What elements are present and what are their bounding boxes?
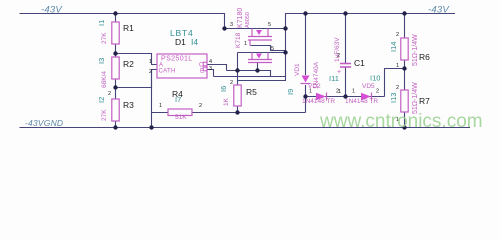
wire Q2 gate tail xyxy=(257,63,259,71)
wire R5 bottom xyxy=(237,106,239,113)
wire left vertical to ground rail xyxy=(151,70,153,128)
svg-text:51Ω-1/4W: 51Ω-1/4W xyxy=(412,82,419,114)
svg-text:I11: I11 xyxy=(329,74,339,83)
resistor R3 xyxy=(97,91,134,121)
svg-text:1N4148 TR: 1N4148 TR xyxy=(302,98,335,105)
svg-text:-43VGND: -43VGND xyxy=(25,118,63,128)
svg-text:I7: I7 xyxy=(175,95,181,104)
wire R4 R5 row xyxy=(152,112,306,114)
svg-text:3: 3 xyxy=(209,66,212,72)
svg-text:51K: 51K xyxy=(175,114,187,121)
svg-text:VD1: VD1 xyxy=(294,63,301,76)
svg-text:I4: I4 xyxy=(191,37,198,47)
svg-text:2: 2 xyxy=(396,85,399,91)
svg-text:R1: R1 xyxy=(123,23,134,33)
svg-text:27K: 27K xyxy=(101,109,108,121)
svg-text:1: 1 xyxy=(338,89,341,95)
svg-text:5: 5 xyxy=(268,22,271,28)
svg-text:CATH: CATH xyxy=(159,69,176,75)
svg-text:R7: R7 xyxy=(419,96,430,106)
svg-text:2: 2 xyxy=(149,69,152,75)
wire VD1 bottom to row xyxy=(305,85,307,113)
op-amp U1 opto coupler PS2501L box xyxy=(149,54,212,78)
wire C1 column xyxy=(345,14,347,64)
svg-text:2: 2 xyxy=(396,32,399,38)
svg-text:I14: I14 xyxy=(389,42,398,52)
svg-text:R6: R6 xyxy=(419,52,430,62)
wire pinE horizontal xyxy=(214,77,286,81)
wire R2 bottom node to opto pin2 xyxy=(116,70,158,88)
svg-text:I10: I10 xyxy=(370,74,380,83)
svg-text:1: 1 xyxy=(396,63,399,69)
svg-text:5: 5 xyxy=(271,46,274,52)
resistor R4 xyxy=(159,89,202,121)
svg-text:1N4148 TR: 1N4148 TR xyxy=(345,98,378,105)
svg-text:R3: R3 xyxy=(123,100,134,110)
svg-text:I1: I1 xyxy=(97,20,106,26)
svg-text:1: 1 xyxy=(149,59,152,65)
svg-text:PS2501L: PS2501L xyxy=(161,56,193,63)
svg-text:-43V: -43V xyxy=(41,5,63,16)
wire diode row xyxy=(306,96,385,98)
svg-text:1: 1 xyxy=(352,89,355,95)
svg-text:I6: I6 xyxy=(219,86,228,92)
wire gate link Q1 xyxy=(251,46,286,51)
svg-text:I2: I2 xyxy=(97,97,106,103)
svg-text:I3: I3 xyxy=(97,58,106,64)
svg-text:www.cntronics.com: www.cntronics.com xyxy=(319,111,483,132)
wire transistor collector vertical xyxy=(285,29,287,77)
diode VD5 xyxy=(345,83,379,105)
resistor R1 xyxy=(97,20,134,44)
svg-text:27K: 27K xyxy=(101,32,108,44)
svg-text:1: 1 xyxy=(244,41,247,47)
svg-text:68K/4: 68K/4 xyxy=(101,71,108,88)
wire bottom rail -43VGND xyxy=(20,127,471,129)
wire R6-R7 link xyxy=(404,60,406,90)
svg-text:I9: I9 xyxy=(286,89,295,95)
diode VD2 xyxy=(302,83,339,105)
wire R1 column xyxy=(115,14,117,128)
wire VD1 column xyxy=(305,14,307,76)
transistor Q2 xyxy=(248,53,272,63)
wire R2 top node to opto pin1 xyxy=(116,54,158,65)
svg-text:2: 2 xyxy=(230,80,233,86)
svg-text:R2: R2 xyxy=(123,59,134,69)
resistor R5 xyxy=(219,80,257,106)
zener diode VD1 xyxy=(286,61,320,95)
resistor R2 xyxy=(97,57,134,88)
wire collector row xyxy=(238,52,286,54)
svg-text:K7180: K7180 xyxy=(237,8,244,28)
svg-text:I13: I13 xyxy=(389,93,398,103)
svg-text:C1: C1 xyxy=(354,58,365,68)
wire R6 column xyxy=(404,14,406,39)
svg-text:K718: K718 xyxy=(235,32,242,48)
wire R5 column xyxy=(237,53,239,86)
svg-text:2: 2 xyxy=(199,103,202,109)
capacitor C1 xyxy=(334,37,365,95)
wire diode row to R6 node xyxy=(385,69,405,97)
svg-text:1: 1 xyxy=(159,103,162,109)
svg-text:2: 2 xyxy=(337,53,340,59)
wire gate node horizontal xyxy=(227,71,271,77)
wire C1 bottom xyxy=(345,67,347,97)
svg-text:4: 4 xyxy=(209,59,212,65)
svg-text:3: 3 xyxy=(230,22,233,28)
svg-text:1K: 1K xyxy=(223,97,230,106)
resistor R6 xyxy=(389,32,430,69)
wire opto pinE stub xyxy=(207,70,214,77)
svg-text:2: 2 xyxy=(376,89,379,95)
svg-text:51Ω-1/4W: 51Ω-1/4W xyxy=(412,34,419,66)
svg-text:D1: D1 xyxy=(175,37,186,47)
wire top rail -43V xyxy=(20,14,456,29)
svg-text:-43V: -43V xyxy=(428,5,450,16)
transistor Q1 xyxy=(248,29,272,46)
wire R7 bottom xyxy=(404,112,406,128)
wire opto pinC stub xyxy=(207,65,227,71)
svg-text:VD5: VD5 xyxy=(362,83,375,90)
svg-text:2: 2 xyxy=(108,91,111,97)
svg-text:A8050: A8050 xyxy=(245,12,251,28)
resistor R7 xyxy=(389,82,430,123)
svg-text:R5: R5 xyxy=(246,87,257,97)
svg-text:1: 1 xyxy=(309,89,312,95)
